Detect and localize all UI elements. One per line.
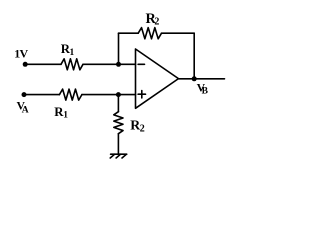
svg-text:2: 2 (154, 17, 159, 28)
svg-text:1: 1 (63, 111, 68, 121)
svg-text:2: 2 (140, 124, 145, 135)
svg-text:A: A (22, 105, 29, 115)
svg-text:1: 1 (70, 48, 75, 58)
svg-text:1V: 1V (14, 47, 28, 61)
svg-text:B: B (202, 87, 209, 97)
